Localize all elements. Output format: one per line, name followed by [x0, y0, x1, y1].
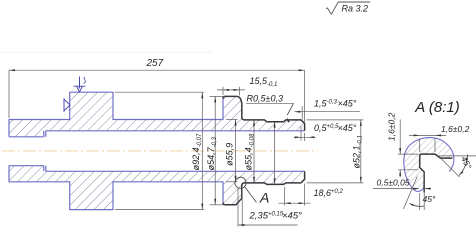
- svg-text:ø55,9: ø55,9: [225, 143, 235, 166]
- svg-text:A (8:1): A (8:1): [414, 99, 459, 116]
- svg-text:2,35+0,15: 2,35+0,15: [249, 211, 284, 222]
- svg-text:0,5+0,5: 0,5+0,5: [314, 123, 339, 133]
- svg-text:257: 257: [146, 58, 164, 69]
- svg-text:×45°: ×45°: [338, 98, 357, 108]
- svg-text:1,6±0,2: 1,6±0,2: [387, 112, 397, 141]
- svg-text:×45°: ×45°: [338, 123, 357, 133]
- svg-text:45°: 45°: [459, 155, 474, 171]
- svg-text:ø52,1-0,1: ø52,1-0,1: [352, 135, 364, 168]
- svg-text:×45°: ×45°: [282, 211, 302, 222]
- svg-text:1,5-0,3: 1,5-0,3: [314, 98, 338, 108]
- svg-text:ø54,7-0,3: ø54,7-0,3: [206, 136, 218, 170]
- svg-text:ø92,4-0,07: ø92,4-0,07: [191, 133, 203, 170]
- svg-text:Ra 3.2: Ra 3.2: [342, 4, 369, 14]
- svg-text:0,5±0,05: 0,5±0,05: [377, 177, 410, 187]
- svg-text:45°: 45°: [423, 194, 436, 204]
- svg-text:18,6+0,2: 18,6+0,2: [314, 188, 344, 198]
- svg-text:15,5-0,1: 15,5-0,1: [250, 76, 278, 88]
- svg-text:A: A: [259, 189, 269, 205]
- svg-text:1,6±0,2: 1,6±0,2: [441, 124, 470, 134]
- svg-text:R0,5±0,3: R0,5±0,3: [247, 94, 283, 104]
